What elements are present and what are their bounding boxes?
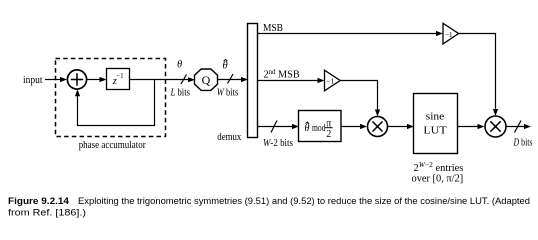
svg-text:Figure 9.2.14: Figure 9.2.14 — [8, 196, 69, 206]
svg-text:θ: θ — [177, 60, 182, 71]
svg-text:Q: Q — [202, 73, 211, 87]
sine LUT box — [414, 94, 458, 154]
wire 2nd MSB to inverter — [258, 78, 325, 83]
inverter triangle top -1 — [443, 23, 459, 44]
svg-text:phase accumulator: phase accumulator — [79, 140, 146, 151]
svg-text:θ: θ — [305, 123, 310, 134]
wire mod box to xor1 — [341, 124, 367, 129]
wire W-2 to mod box — [258, 124, 300, 129]
node theta-hat — [223, 59, 228, 71]
inverter triangle mid -1 — [325, 70, 341, 91]
demux bar — [248, 24, 258, 138]
label LUT entries — [412, 160, 464, 184]
svg-text:2W−2 entries: 2W−2 entries — [414, 160, 464, 174]
svg-text:D bits: D bits — [513, 138, 533, 149]
wire sine LUT to xor2 — [458, 124, 485, 129]
wire inverter to xor2 — [459, 34, 499, 117]
svg-text:L bits: L bits — [170, 88, 190, 99]
label MSB — [263, 23, 283, 34]
svg-text:Exploiting the trigonometric s: Exploiting the trigonometric symmetries … — [78, 196, 530, 206]
svg-text:input: input — [23, 75, 43, 86]
label 2nd MSB — [264, 69, 300, 81]
label W-2 bits — [263, 138, 293, 149]
adder summing junction — [67, 70, 86, 89]
node theta — [177, 60, 182, 71]
svg-text:−1: −1 — [116, 72, 124, 80]
svg-text:θ: θ — [223, 60, 228, 71]
label L bits — [170, 88, 190, 99]
svg-text:mod: mod — [312, 123, 326, 134]
svg-text:sine: sine — [426, 111, 445, 123]
xor1 multiplier — [368, 117, 388, 137]
wire input to adder — [45, 77, 67, 82]
demux label — [217, 132, 242, 143]
feedback wire — [75, 80, 155, 126]
wire output — [506, 124, 531, 129]
caption — [8, 196, 530, 217]
mod box theta mod pi/2 — [299, 111, 342, 142]
svg-text:W-2 bits: W-2 bits — [263, 138, 293, 149]
quantizer Q octagon — [195, 69, 218, 90]
wire inverter to xor1 — [340, 81, 380, 117]
wire MSB to inverter — [258, 31, 444, 36]
wire quantizer to demux — [218, 77, 249, 82]
svg-text:over [0, π/2]: over [0, π/2] — [412, 173, 464, 184]
node input label — [23, 75, 43, 86]
svg-text:2nd MSB: 2nd MSB — [264, 69, 300, 81]
delay block z^-1 — [107, 69, 130, 90]
svg-text:2: 2 — [326, 129, 331, 140]
wire adder to z-1 — [87, 77, 107, 82]
bus slash L — [181, 75, 187, 85]
svg-text:−1: −1 — [445, 30, 453, 39]
wire xor1 to sine LUT — [388, 124, 415, 129]
phase accumulator dashed box — [56, 59, 166, 137]
bus slash W — [228, 74, 234, 84]
bus slash W-2 — [271, 121, 277, 133]
xor2 multiplier — [485, 116, 506, 137]
svg-text:LUT: LUT — [423, 125, 447, 137]
svg-text:MSB: MSB — [263, 23, 283, 34]
svg-text:W bits: W bits — [217, 88, 239, 99]
bus slash D — [515, 121, 522, 133]
wire z-1 to quantizer — [130, 77, 196, 82]
label W bits — [217, 88, 239, 99]
svg-text:from Ref. [186].): from Ref. [186].) — [8, 207, 86, 217]
label D bits — [513, 138, 533, 149]
svg-text:−1: −1 — [326, 76, 334, 85]
svg-text:demux: demux — [217, 132, 242, 143]
phase accumulator label — [79, 140, 146, 151]
